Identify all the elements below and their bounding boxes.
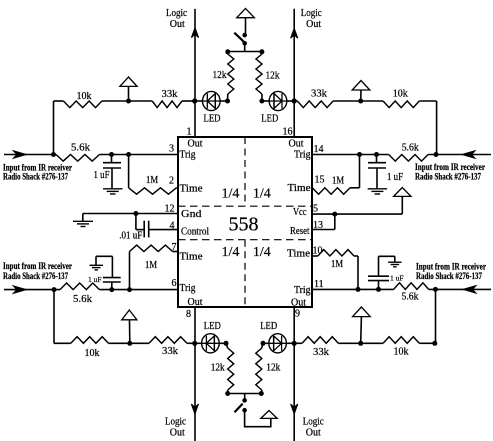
- arrow logic out (bottom-left): [191, 404, 198, 414]
- label 5.6k (bottom-right): [402, 292, 419, 303]
- wire 33k/10k chain (bottom-right): [294, 342, 435, 344]
- label input (bottom-left): [3, 261, 72, 281]
- wire 1M drop (top-left): [128, 155, 130, 188]
- IC section label 1/4 (bottom-left): [222, 245, 240, 260]
- node input/chain junction (bottom-left): [52, 287, 57, 292]
- resistor 10k (bottom-left): [71, 337, 109, 344]
- svg-text:Reset: Reset: [290, 226, 310, 237]
- label .01 uF: [119, 231, 142, 242]
- pin number 6: [172, 278, 177, 289]
- svg-text:5.6k: 5.6k: [71, 143, 90, 154]
- svg-text:9: 9: [295, 309, 300, 320]
- svg-text:10k: 10k: [394, 347, 409, 358]
- pin number 11: [314, 279, 324, 290]
- IC pin name Out (pin1): [188, 139, 203, 150]
- wire logic out (pin 1): [194, 9, 196, 137]
- svg-text:Time: Time: [180, 184, 204, 195]
- pin number 12: [165, 204, 175, 215]
- svg-text:3: 3: [169, 144, 174, 155]
- IC section label 1/4 (bottom-right): [253, 245, 271, 260]
- IC pin name Out (pin16): [289, 139, 304, 150]
- resistor 5.6k (top-right): [389, 155, 428, 162]
- IC pin name Reset (pin13): [290, 226, 310, 237]
- svg-text:Logic: Logic: [166, 8, 188, 19]
- node capacitor junction (bottom-left): [109, 287, 114, 292]
- svg-text:33k: 33k: [311, 89, 327, 100]
- capacitor 1uF (top-right): [368, 155, 386, 189]
- pin number 9: [295, 309, 300, 320]
- arrow logic out (top-right): [291, 28, 298, 38]
- wire 1M drop (pin 10): [357, 256, 359, 289]
- power +V (top-left): [120, 77, 137, 101]
- label input (bottom-right): [416, 261, 486, 281]
- wire 10k/33k chain (bottom-left): [54, 342, 195, 344]
- node 1M junction (bottom-left): [127, 287, 132, 292]
- resistor 33k (top-right): [297, 101, 333, 108]
- label 1 uF (bottom-left): [88, 275, 102, 284]
- node pin16 wire / LED / 33k junction: [292, 98, 297, 103]
- svg-text:1 uF: 1 uF: [94, 170, 110, 181]
- node LED D2 cathode feed: [259, 99, 264, 104]
- label 12k (bottom-left): [211, 362, 225, 373]
- wire 1M rise (top-right): [359, 155, 361, 188]
- IC pin name Out (pin8): [188, 297, 203, 308]
- svg-text:1/4: 1/4: [253, 187, 271, 202]
- pin number 16: [283, 127, 293, 138]
- power +V (pin 5): [394, 188, 411, 215]
- resistor 12k (bottom-right vertical): [256, 343, 263, 393]
- label 1 uF (top-right): [387, 172, 403, 183]
- label LED (bottom-left): [204, 321, 221, 332]
- label 12k (bottom-right): [266, 362, 280, 373]
- label 5.6k (top-right): [402, 143, 419, 154]
- svg-text:Radio Shack #276-137: Radio Shack #276-137: [3, 172, 68, 182]
- IC internal divider dashed horizontals: [178, 206, 312, 240]
- svg-text:5: 5: [313, 204, 318, 215]
- svg-text:12k: 12k: [266, 71, 280, 82]
- svg-text:Input from IR receiver: Input from IR receiver: [416, 261, 486, 271]
- label input (top-right): [415, 162, 485, 181]
- IC pin name Time (pin15): [288, 183, 312, 194]
- ground (bottom-left cap): [90, 256, 113, 270]
- label 10k (top-left): [77, 91, 92, 102]
- svg-text:Out: Out: [170, 19, 185, 30]
- node Vcc stem junction (top-left): [126, 99, 131, 104]
- ground (pin 12): [73, 214, 93, 227]
- wire bottom switch bar: [228, 394, 262, 399]
- svg-text:Out: Out: [188, 297, 203, 308]
- label 1 uF (bottom-right): [390, 274, 404, 283]
- svg-text:10k: 10k: [85, 348, 100, 359]
- svg-text:10k: 10k: [77, 91, 92, 102]
- pin number 4: [170, 221, 175, 232]
- svg-text:Time: Time: [180, 252, 204, 263]
- LED D2 (top-right): [262, 91, 294, 110]
- label input (top-left): [3, 162, 72, 181]
- node Vcc stem junction (bottom-left): [127, 341, 132, 346]
- pin number 1: [187, 127, 192, 138]
- svg-text:12k: 12k: [213, 70, 227, 81]
- pin number 2: [169, 176, 174, 187]
- label LED (bottom-right): [260, 321, 277, 332]
- IC pin name Trig (pin14): [294, 150, 311, 161]
- IC pin name Trig (pin6): [180, 283, 196, 294]
- IC pin name Control (pin4): [181, 227, 209, 238]
- node top bar right: [259, 49, 264, 54]
- resistor 12k (top-right vertical): [256, 54, 262, 101]
- label 1M (pin 10): [331, 259, 343, 270]
- node capacitor junction (bottom-right): [376, 287, 381, 292]
- power +V (bottom middle): [261, 411, 277, 419]
- wire input line (pin 3): [4, 154, 178, 156]
- pin number 5: [313, 204, 318, 215]
- IC internal divider dashed vertical: [244, 137, 246, 307]
- label 1M (pin 15): [332, 176, 344, 187]
- node pin9 wire / LED / 33k junction: [292, 341, 297, 346]
- resistor 12k (bottom-left vertical): [226, 343, 234, 393]
- svg-text:1 uF: 1 uF: [390, 274, 404, 283]
- wire logic out (pin 9): [293, 307, 295, 441]
- resistor 5.6k (bottom-right): [394, 283, 429, 290]
- LED D3 (bottom-left): [195, 334, 226, 353]
- wire pin 12 ground line: [83, 213, 178, 215]
- svg-text:1M: 1M: [331, 259, 343, 270]
- svg-text:Radio Shack #276-137: Radio Shack #276-137: [416, 271, 482, 281]
- svg-text:15: 15: [315, 175, 325, 186]
- IC pin name Time (pin7): [180, 252, 204, 263]
- svg-text:10k: 10k: [393, 89, 408, 100]
- svg-text:Trig: Trig: [294, 150, 311, 161]
- svg-text:1: 1: [187, 127, 192, 138]
- label 10k (top-right): [393, 89, 408, 100]
- svg-text:LED: LED: [260, 321, 277, 332]
- wire logic out (pin 16): [293, 9, 295, 137]
- label 33k (top-right): [311, 89, 327, 100]
- pin number 8: [186, 309, 191, 320]
- IC label 558: [229, 214, 259, 236]
- svg-text:Out: Out: [306, 428, 321, 439]
- capacitor 1uF (bottom-left): [103, 256, 121, 289]
- wire top switch output bar: [228, 51, 262, 53]
- svg-text:Radio Shack #276-137: Radio Shack #276-137: [3, 271, 68, 281]
- resistor 33k (bottom-right): [302, 337, 338, 344]
- svg-text:10: 10: [313, 246, 323, 257]
- resistor 33k (bottom-left): [149, 337, 187, 344]
- wire 1M drop (pin 7): [129, 252, 131, 290]
- node LED D4 feed: [261, 341, 266, 346]
- svg-text:Trig: Trig: [180, 283, 196, 294]
- svg-text:1/4: 1/4: [222, 187, 240, 202]
- label Logic Out (bottom-left): [165, 417, 187, 439]
- wire pin 13 reset tie: [312, 214, 335, 229]
- svg-text:1 uF: 1 uF: [387, 172, 403, 183]
- label Logic Out (top-right): [301, 8, 323, 30]
- label 12k (top-left): [213, 70, 227, 81]
- wire input line (pin 11): [312, 288, 491, 290]
- svg-text:8: 8: [186, 309, 191, 320]
- node 1M junction (bottom-right): [356, 287, 361, 292]
- svg-text:.01 uF: .01 uF: [119, 231, 142, 242]
- node capacitor junction (top-right): [374, 152, 379, 157]
- LED D4 (bottom-right): [263, 334, 294, 353]
- node top bar left: [225, 49, 230, 54]
- power +V (bottom-right): [353, 307, 371, 343]
- svg-text:33k: 33k: [162, 346, 178, 357]
- label LED (top-left): [204, 114, 221, 125]
- IC pin name Vcc (pin5): [293, 207, 307, 218]
- label 33k (top-left): [162, 89, 178, 100]
- svg-text:14: 14: [314, 144, 324, 155]
- label 1M (pin 2): [146, 175, 158, 186]
- resistor 1M (pin 7): [130, 245, 179, 251]
- power +V (top-right): [352, 81, 370, 102]
- IC pin name Time (pin10): [287, 249, 311, 260]
- svg-text:Out: Out: [170, 428, 185, 439]
- capacitor 1uF (bottom-right): [368, 256, 389, 289]
- svg-text:Out: Out: [289, 139, 304, 150]
- node chain/input riser junction (bottom-right): [432, 341, 437, 346]
- node input/chain junction (top-left): [51, 152, 56, 157]
- node Vcc stem junction (top-right): [358, 99, 363, 104]
- label 12k (top-right): [266, 71, 280, 82]
- resistor 10k (top-left): [63, 101, 102, 108]
- label 5.6k (bottom-left): [73, 294, 92, 305]
- resistor 1M (pin 2): [129, 188, 178, 194]
- svg-text:11: 11: [314, 279, 324, 290]
- IC pin name Out (pin9): [291, 298, 306, 309]
- pin number 10: [313, 246, 323, 257]
- wire chain down to input (top-left): [53, 101, 55, 155]
- IC pin name Gnd (pin12): [181, 209, 202, 220]
- svg-text:Trig: Trig: [180, 150, 196, 161]
- label 1 uF (top-left): [94, 170, 110, 181]
- wire chain up from 10k (bottom-right): [435, 289, 437, 343]
- node LED D1 anode: [225, 99, 230, 104]
- resistor 1M (pin 10): [312, 250, 358, 256]
- svg-text:Out: Out: [306, 19, 321, 30]
- svg-text:Logic: Logic: [165, 417, 187, 428]
- svg-text:1M: 1M: [146, 175, 158, 186]
- svg-text:Trig: Trig: [294, 285, 311, 296]
- svg-text:LED: LED: [261, 114, 278, 125]
- ground (top-right cap): [368, 189, 388, 194]
- wire input line (pin 6): [4, 289, 178, 291]
- op IC U1 558 quad timer body: [178, 137, 312, 307]
- svg-text:12k: 12k: [266, 362, 280, 373]
- capacitor 1uF (top-left): [103, 155, 121, 189]
- svg-text:2: 2: [169, 176, 174, 187]
- node control cap junction: [133, 211, 138, 216]
- resistor 5.6k (bottom-left): [60, 283, 99, 290]
- node pin1 wire / LED / 33k junction: [192, 98, 197, 103]
- wire pin 5 Vcc line: [312, 213, 402, 215]
- label 5.6k (top-left): [71, 143, 90, 154]
- wire switch S2 to power: [245, 412, 271, 427]
- label Logic Out (top-left): [166, 8, 188, 30]
- node capacitor junction (top-left): [109, 152, 114, 157]
- svg-text:Time: Time: [287, 249, 311, 260]
- IC pin name Trig (pin11): [294, 285, 311, 296]
- node 1M junction (top-right): [357, 152, 362, 157]
- IC pin name Trig (pin3): [180, 150, 196, 161]
- IC section label 1/4 (top-left): [222, 187, 240, 202]
- wire logic out (pin 8): [194, 307, 196, 441]
- svg-text:5.6k: 5.6k: [73, 294, 92, 305]
- arrow input (top-left): [13, 151, 26, 159]
- svg-text:Out: Out: [188, 139, 203, 150]
- svg-text:1 uF: 1 uF: [88, 275, 102, 284]
- power +V (top middle): [237, 8, 255, 33]
- wire 10k/33k chain (top-left): [54, 100, 195, 102]
- arrow logic out (top-left): [191, 28, 198, 38]
- svg-text:Control: Control: [181, 227, 209, 238]
- svg-text:6: 6: [172, 278, 177, 289]
- wire input line (pin 14): [312, 154, 491, 156]
- capacitor .01 uF (pin 4): [136, 214, 178, 238]
- node Vcc stem junction (bottom-right): [358, 341, 363, 346]
- svg-text:Input from IR receiver: Input from IR receiver: [3, 261, 72, 271]
- arrow input (bottom-right): [463, 286, 476, 294]
- svg-text:Gnd: Gnd: [181, 209, 202, 220]
- node input/chain junction (top-right): [434, 152, 439, 157]
- resistor 33k (top-left): [152, 101, 182, 108]
- arrow input (top-right): [462, 151, 475, 159]
- resistor 5.6k (top-left): [56, 155, 99, 162]
- label LED (top-right): [261, 114, 278, 125]
- svg-text:558: 558: [229, 214, 259, 236]
- resistor 12k (top-left vertical): [228, 54, 234, 101]
- svg-text:Radio Shack #276-137: Radio Shack #276-137: [415, 171, 481, 181]
- IC pin name Time (pin2): [180, 184, 204, 195]
- svg-text:Logic: Logic: [303, 417, 325, 428]
- svg-text:Time: Time: [288, 183, 312, 194]
- wire chain down to input (top-right): [436, 101, 438, 155]
- wire 33k/10k chain (top-right): [294, 100, 436, 102]
- arrow logic out (bottom-right): [291, 404, 298, 414]
- resistor 1M (pin 15): [312, 188, 359, 194]
- svg-text:LED: LED: [204, 114, 221, 125]
- resistor 10k (top-right): [383, 101, 419, 108]
- node bottom bar left: [225, 391, 230, 396]
- svg-text:16: 16: [283, 127, 293, 138]
- svg-text:1M: 1M: [145, 260, 157, 271]
- svg-text:LED: LED: [204, 321, 221, 332]
- node reset tie junction: [332, 212, 337, 217]
- pin number 13: [313, 220, 323, 231]
- node LED D3 anode: [224, 341, 229, 346]
- svg-text:1M: 1M: [332, 176, 344, 187]
- wire chain up from 10k (bottom-left): [53, 290, 55, 344]
- ground (bottom-right cap): [379, 256, 402, 267]
- ground (top-left cap): [103, 189, 123, 194]
- arrow input (bottom-left): [13, 286, 26, 294]
- pin number 15: [315, 175, 325, 186]
- svg-text:12k: 12k: [211, 362, 225, 373]
- node pin8 wire / LED / 33k junction: [192, 341, 197, 346]
- label 1M (pin 7): [145, 260, 157, 271]
- LED D1 (top-left): [195, 91, 228, 110]
- svg-text:Out: Out: [291, 298, 306, 309]
- IC section label 1/4 (top-right): [253, 187, 271, 202]
- power +V (bottom-left): [122, 310, 137, 343]
- label 33k (bottom-left): [162, 346, 178, 357]
- pin number 3: [169, 144, 174, 155]
- node input/chain junction (bottom-right): [433, 287, 438, 292]
- switch S2 (bottom): [235, 398, 247, 412]
- label Logic Out (bottom-right): [303, 417, 325, 439]
- svg-text:Logic: Logic: [301, 8, 323, 19]
- svg-text:1/4: 1/4: [222, 245, 240, 260]
- label 33k (bottom-right): [313, 347, 329, 358]
- svg-text:5.6k: 5.6k: [402, 143, 419, 154]
- svg-text:Vcc: Vcc: [293, 207, 307, 218]
- pin number 7: [172, 242, 177, 253]
- node bottom bar right: [259, 391, 264, 396]
- svg-text:5.6k: 5.6k: [402, 292, 419, 303]
- svg-text:33k: 33k: [313, 347, 329, 358]
- resistor 10k (bottom-right): [383, 337, 419, 344]
- switch S1 (top): [234, 33, 247, 52]
- pin number 14: [314, 144, 324, 155]
- label 10k (bottom-left): [85, 348, 100, 359]
- svg-text:1/4: 1/4: [253, 245, 271, 260]
- label 10k (bottom-right): [394, 347, 409, 358]
- svg-text:33k: 33k: [162, 89, 178, 100]
- node 1M junction (top-left): [126, 152, 131, 157]
